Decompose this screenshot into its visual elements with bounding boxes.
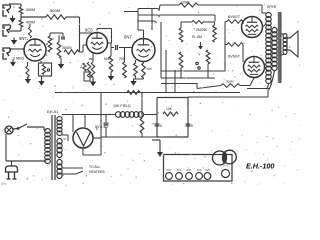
svg-text:500M: 500M (26, 8, 35, 12)
svg-text:6N7: 6N7 (187, 168, 192, 172)
svg-text:6C5: 6C5 (85, 28, 93, 33)
svg-text:HEATERS: HEATERS (89, 170, 106, 174)
svg-text:40: 40 (63, 137, 67, 141)
svg-text:+: + (198, 52, 201, 57)
svg-text:TO ALL: TO ALL (89, 165, 101, 169)
svg-text:+: + (52, 37, 54, 41)
svg-text:8: 8 (191, 124, 193, 128)
svg-text:2: 2 (80, 65, 82, 69)
svg-text:6V6: 6V6 (205, 168, 210, 172)
svg-text:500M: 500M (50, 8, 60, 13)
svg-text:8: 8 (160, 124, 162, 128)
svg-text:E.H.-100: E.H.-100 (246, 162, 274, 171)
svg-text:PL.8M: PL.8M (192, 35, 202, 39)
svg-text:10K: 10K (166, 107, 173, 111)
svg-text:4%: 4% (1, 182, 6, 186)
svg-text:6N7: 6N7 (19, 36, 27, 41)
svg-text:500M: 500M (226, 80, 234, 84)
svg-text:6V6GT: 6V6GT (228, 15, 241, 19)
svg-text:100M: 100M (181, 1, 190, 5)
svg-text:SPKR: SPKR (267, 5, 277, 9)
svg-text:5Y3 40: 5Y3 40 (95, 124, 108, 129)
svg-text:2 MEG: 2 MEG (13, 57, 24, 61)
svg-text:EH-51: EH-51 (47, 109, 59, 114)
svg-text:100: 100 (147, 67, 152, 71)
svg-text:6V6GT: 6V6GT (228, 55, 241, 59)
svg-text:6N7: 6N7 (167, 168, 172, 172)
svg-text:+: + (100, 119, 102, 123)
svg-text:250M: 250M (62, 46, 72, 50)
svg-text:6C5: 6C5 (177, 168, 182, 172)
svg-text:10K FIELD: 10K FIELD (113, 104, 131, 108)
svg-text:2M/250: 2M/250 (196, 28, 207, 32)
svg-text:250: 250 (119, 57, 125, 61)
svg-text:50M: 50M (104, 57, 111, 61)
svg-text:6N7: 6N7 (124, 35, 132, 40)
svg-text:6V6: 6V6 (197, 168, 202, 172)
svg-text:450M: 450M (26, 21, 35, 25)
